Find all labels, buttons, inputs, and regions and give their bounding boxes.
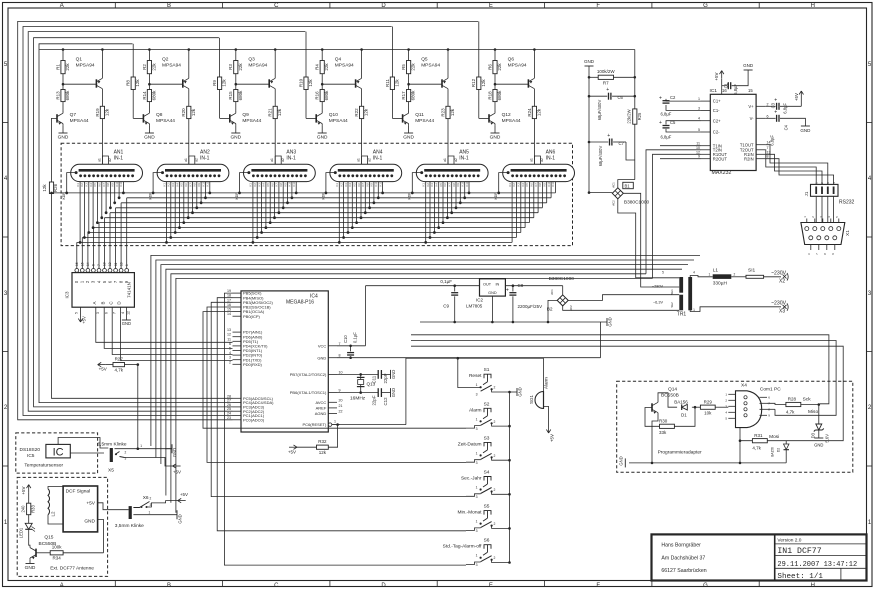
svg-text:C7: C7 — [619, 141, 625, 146]
svg-text:Hans Borngräber: Hans Borngräber — [661, 543, 701, 549]
svg-text:G: G — [703, 3, 708, 9]
svg-text:GND: GND — [230, 135, 241, 141]
svg-text:17: 17 — [227, 298, 231, 302]
svg-text:AREF: AREF — [316, 406, 327, 411]
svg-text:16MHz: 16MHz — [350, 396, 366, 402]
resistor R20 12k — [187, 106, 191, 118]
svg-text:R21: R21 — [268, 108, 273, 117]
svg-text:R2: R2 — [142, 64, 147, 70]
svg-text:+5V: +5V — [99, 367, 107, 372]
svg-text:5: 5 — [698, 128, 700, 132]
resistor R17 680k — [407, 90, 411, 102]
svg-text:12k: 12k — [536, 108, 541, 116]
svg-text:IN-1: IN-1 — [114, 156, 124, 162]
svg-text:C10: C10 — [343, 335, 348, 343]
inductor L2 — [48, 489, 50, 515]
wire tube 2 cathode drops — [149, 173, 212, 244]
svg-text:R13: R13 — [55, 91, 60, 100]
svg-text:R23: R23 — [440, 108, 445, 117]
svg-text:Q8: Q8 — [156, 112, 163, 118]
wire switch common — [509, 392, 511, 563]
svg-text:GND: GND — [178, 514, 183, 523]
svg-text:4,7k: 4,7k — [752, 446, 761, 451]
resistor R10 12k — [304, 77, 308, 90]
svg-text:R22: R22 — [354, 108, 359, 117]
svg-text:S5: S5 — [484, 504, 490, 510]
resistor R6 22k — [493, 61, 497, 74]
svg-text:IC5: IC5 — [27, 453, 35, 459]
svg-text:K5: K5 — [180, 183, 184, 187]
svg-text:X2: X2 — [779, 279, 785, 285]
svg-text:Miso: Miso — [808, 409, 818, 415]
svg-text:LM7805: LM7805 — [466, 304, 483, 309]
title block — [652, 534, 867, 580]
svg-text:PD0(RXD): PD0(RXD) — [243, 362, 263, 367]
svg-text:15: 15 — [81, 262, 85, 266]
svg-text:AC1: AC1 — [612, 182, 616, 188]
svg-text:R25: R25 — [637, 112, 642, 120]
ground cell 6 — [494, 125, 496, 133]
wire tube 4 cathode drops — [321, 173, 384, 244]
svg-text:IN1 DCF77: IN1 DCF77 — [777, 547, 821, 556]
svg-text:4: 4 — [121, 312, 125, 314]
resistor R13 680k — [61, 90, 65, 102]
capacitor C2 6,8uF — [663, 100, 670, 102]
ground C4 — [801, 125, 810, 127]
svg-text:a1: a1 — [184, 158, 188, 162]
capacitor C4 6,8uF — [776, 115, 778, 122]
nixie tube AN6 IN-1 — [503, 150, 575, 182]
IC5 DS18S20 temperature sensor — [16, 433, 98, 473]
nixie tube AN1 IN-1 — [71, 150, 143, 182]
svg-text:K2: K2 — [339, 183, 343, 187]
svg-text:K9: K9 — [456, 183, 460, 187]
DCF receiver module — [63, 486, 98, 532]
+5V right of X5 — [173, 465, 181, 467]
svg-text:KDP: KDP — [321, 192, 325, 200]
svg-text:5: 5 — [229, 347, 231, 351]
svg-text:5: 5 — [75, 312, 79, 314]
svg-text:GND: GND — [488, 291, 497, 295]
wire tube 5 cathode drops — [408, 173, 471, 244]
capacitor C3 6,8uF — [776, 103, 778, 110]
bridge rectifier B1 B380C1000 — [612, 188, 623, 199]
svg-text:R8: R8 — [126, 80, 131, 86]
svg-text:F: F — [596, 3, 600, 9]
resistor R26 — [49, 182, 53, 194]
svg-text:IN-1: IN-1 — [200, 156, 210, 162]
svg-text:22pF: 22pF — [372, 395, 377, 405]
svg-text:8: 8 — [767, 155, 769, 159]
wire B1 to TR1 — [589, 192, 612, 194]
svg-text:KDP: KDP — [149, 192, 153, 200]
programming adapter dashed box — [617, 381, 853, 472]
resistor R30 33k — [660, 424, 675, 428]
svg-text:+: + — [607, 133, 610, 139]
svg-text:+: + — [774, 97, 777, 103]
svg-text:R3: R3 — [228, 64, 233, 70]
svg-text:GND: GND — [317, 135, 328, 141]
wire alarm net — [458, 357, 544, 359]
svg-text:1: 1 — [334, 420, 336, 424]
svg-text:2: 2 — [494, 488, 496, 492]
svg-text:66127 Saarbrücken: 66127 Saarbrücken — [661, 568, 706, 574]
svg-text:R14: R14 — [142, 91, 147, 100]
transistor Q12 MPSA44 — [488, 114, 490, 122]
svg-text:Q11: Q11 — [415, 112, 424, 118]
svg-text:C2-: C2- — [713, 130, 720, 135]
svg-text:+: + — [659, 120, 662, 126]
svg-text:K2: K2 — [426, 183, 430, 187]
svg-text:18: 18 — [227, 294, 231, 298]
capacitor C11 22pF — [377, 370, 379, 379]
svg-text:~6,3V: ~6,3V — [653, 301, 663, 305]
svg-text:3: 3 — [476, 393, 478, 397]
svg-text:9: 9 — [698, 155, 700, 159]
svg-text:1: 1 — [476, 383, 478, 387]
crystal Q13 16MHz — [357, 376, 365, 378]
svg-text:+: + — [606, 87, 609, 93]
svg-text:Com1 PC: Com1 PC — [760, 386, 781, 392]
svg-text:Q7: Q7 — [70, 112, 77, 118]
svg-text:22k: 22k — [411, 63, 416, 71]
svg-text:PB7(XTAL2/TOSC2): PB7(XTAL2/TOSC2) — [290, 372, 327, 377]
svg-text:IN-1: IN-1 — [459, 156, 469, 162]
svg-text:R2IN: R2IN — [744, 156, 754, 161]
svg-text:+: + — [659, 95, 662, 101]
svg-text:14: 14 — [86, 262, 90, 266]
svg-text:3: 3 — [476, 495, 478, 499]
transistor Q7 MPSA44 — [56, 114, 58, 122]
svg-text:2: 2 — [734, 273, 736, 277]
wire MAX232 to J1 — [765, 145, 828, 185]
switch S1 Reset — [458, 367, 511, 397]
wire B2 connections — [548, 300, 557, 322]
svg-text:SG1: SG1 — [529, 394, 534, 404]
svg-text:MPSA44: MPSA44 — [70, 118, 89, 124]
resistor R25 22k/2W — [633, 109, 637, 124]
DCF antenna dashed box — [17, 477, 107, 576]
svg-text:R19: R19 — [95, 108, 100, 117]
transistor Q5 MPSA94 — [441, 79, 443, 87]
svg-text:S4: S4 — [484, 470, 490, 476]
svg-text:K11: K11 — [551, 181, 555, 186]
wire driver cell 6 — [479, 21, 536, 164]
svg-text:VCC: VCC — [318, 343, 327, 348]
svg-text:0,1µF: 0,1µF — [440, 279, 452, 284]
svg-text:GND: GND — [584, 59, 595, 64]
svg-text:Q2: Q2 — [162, 57, 169, 63]
bridge rectifier B2 B380C1000 — [557, 295, 568, 306]
wire R27 — [98, 364, 106, 366]
svg-text:X5: X5 — [108, 468, 114, 474]
capacitor C1 6,8uF — [727, 82, 729, 89]
IC1 MAX232 — [710, 94, 756, 170]
wire VCC/GND of IC4 — [337, 286, 601, 359]
svg-text:D1: D1 — [681, 413, 687, 418]
svg-text:MPSA94: MPSA94 — [421, 63, 440, 69]
wire anode-select net cell4 — [28, 32, 305, 412]
transistor Q10 MPSA44 — [315, 114, 317, 122]
svg-text:Q5: Q5 — [421, 57, 428, 63]
svg-text:4: 4 — [698, 117, 700, 121]
svg-text:+5V: +5V — [21, 487, 26, 495]
svg-text:6,8µF: 6,8µF — [783, 103, 788, 114]
svg-text:19: 19 — [227, 289, 231, 293]
svg-text:16: 16 — [75, 262, 79, 266]
svg-text:3: 3 — [96, 312, 100, 314]
svg-text:G: G — [703, 583, 708, 589]
svg-text:12: 12 — [696, 150, 700, 154]
svg-text:D2: D2 — [777, 448, 781, 452]
connector X1 DB9 — [801, 223, 845, 245]
svg-text:Std.-Tag-Alarm-off: Std.-Tag-Alarm-off — [443, 544, 482, 550]
svg-text:A: A — [60, 583, 64, 589]
svg-text:C1: C1 — [724, 82, 729, 88]
svg-text:C3: C3 — [771, 102, 776, 108]
svg-text:7: 7 — [339, 342, 341, 346]
svg-text:R18: R18 — [487, 91, 492, 100]
svg-text:BA156: BA156 — [674, 399, 688, 404]
svg-text:Sec.-Jahr: Sec.-Jahr — [461, 476, 482, 482]
svg-text:V-: V- — [750, 116, 755, 121]
svg-text:74141N: 74141N — [127, 282, 132, 298]
wire driver cell 5 — [392, 27, 449, 165]
svg-text:1: 1 — [698, 97, 700, 101]
svg-text:2: 2 — [767, 102, 769, 106]
svg-text:S3: S3 — [484, 435, 490, 441]
svg-text:2: 2 — [229, 360, 231, 364]
capacitor C6 68uF/400V — [608, 93, 610, 100]
wire tube 6 cathode drops — [494, 173, 555, 243]
wire C2 — [666, 99, 701, 101]
svg-text:12k: 12k — [277, 108, 282, 116]
svg-text:12: 12 — [127, 311, 131, 315]
ground HV filter — [585, 65, 594, 67]
svg-text:10: 10 — [339, 370, 343, 374]
svg-text:IN-1: IN-1 — [373, 156, 383, 162]
svg-text:KDP: KDP — [235, 192, 239, 200]
svg-text:+: + — [506, 287, 509, 293]
+5V at C1 — [721, 71, 723, 79]
svg-text:AC2: AC2 — [569, 305, 573, 311]
svg-text:R30: R30 — [659, 419, 668, 424]
ground power rail — [606, 318, 608, 326]
svg-text:K9: K9 — [197, 183, 201, 187]
svg-text:S6: S6 — [484, 538, 490, 544]
svg-text:5: 5 — [662, 271, 664, 275]
svg-text:X1: X1 — [845, 230, 851, 236]
svg-text:R7: R7 — [603, 81, 609, 86]
svg-text:PC6(RESET): PC6(RESET) — [303, 422, 327, 427]
svg-text:Min.-Monat: Min.-Monat — [458, 510, 483, 516]
svg-text:B: B — [167, 3, 171, 9]
wire anode-select net cell5 — [23, 27, 392, 416]
svg-text:a2: a2 — [108, 158, 112, 162]
svg-text:Q6: Q6 — [508, 57, 515, 63]
wire Q14 — [645, 408, 660, 427]
svg-text:IC2: IC2 — [476, 298, 484, 303]
svg-text:0,1µF: 0,1µF — [353, 332, 358, 343]
svg-text:12k: 12k — [135, 79, 140, 87]
wire tube 3 cathode drops — [235, 173, 298, 244]
resistor R31 4,7k — [752, 439, 767, 443]
svg-text:MPSA44: MPSA44 — [502, 118, 521, 124]
svg-text:+5V: +5V — [794, 93, 799, 101]
wire driver cell 3 — [220, 38, 277, 165]
svg-text:6: 6 — [92, 264, 96, 266]
wire X6 — [133, 514, 177, 516]
transistor Q9 MPSA44 — [229, 114, 231, 122]
svg-text:PB6(XTAL1/TOSC1): PB6(XTAL1/TOSC1) — [290, 390, 327, 395]
svg-text:AGND: AGND — [315, 411, 327, 416]
svg-text:IN-1: IN-1 — [286, 156, 296, 162]
svg-text:GND: GND — [58, 135, 69, 141]
resistor R15 680k — [234, 90, 238, 102]
wire driver cell 2 — [133, 44, 190, 165]
svg-text:R5: R5 — [401, 64, 406, 70]
svg-text:Mosi: Mosi — [769, 434, 779, 440]
ground D3 — [814, 437, 823, 439]
svg-text:12k: 12k — [222, 79, 227, 87]
svg-text:C: C — [274, 3, 279, 9]
svg-text:12k: 12k — [394, 79, 399, 87]
svg-text:4,7k: 4,7k — [114, 368, 123, 373]
svg-text:+: + — [774, 109, 777, 115]
svg-text:H: H — [811, 583, 815, 589]
svg-text:a1: a1 — [357, 158, 361, 162]
svg-text:MPSA94: MPSA94 — [162, 63, 181, 69]
svg-text:14: 14 — [227, 312, 231, 316]
svg-text:Q14: Q14 — [668, 387, 677, 393]
switch S4 Sec.-Jahr — [461, 470, 511, 500]
resistor R33 240 — [27, 503, 31, 515]
svg-text:7: 7 — [767, 146, 769, 150]
svg-text:C2+: C2+ — [713, 118, 721, 123]
svg-text:R33: R33 — [31, 504, 36, 512]
op-amp U1 IC3 74141N nixie driver — [72, 273, 134, 308]
resistor R34 100k — [50, 551, 63, 555]
svg-text:C4: C4 — [784, 124, 789, 130]
capacitor C9 0,1uF — [451, 292, 458, 294]
transistor Q4 MPSA94 — [355, 79, 357, 87]
+5V at SG1 — [548, 425, 550, 433]
svg-text:GND: GND — [608, 317, 613, 326]
svg-text:GND: GND — [317, 355, 326, 360]
svg-text:11: 11 — [114, 262, 118, 266]
capacitor C7 68uF/400V — [609, 139, 611, 146]
svg-text:4: 4 — [229, 351, 231, 355]
ground C11 — [390, 370, 392, 379]
svg-text:K9: K9 — [543, 183, 547, 187]
svg-text:A: A — [60, 3, 64, 9]
svg-text:R1: R1 — [55, 64, 60, 70]
svg-text:GND: GND — [172, 448, 177, 457]
svg-text:X6: X6 — [143, 495, 149, 501]
svg-text:MAX232: MAX232 — [712, 170, 732, 176]
svg-text:Alarm: Alarm — [469, 407, 482, 413]
svg-text:~230V: ~230V — [771, 301, 787, 307]
svg-text:MEGA8-P16: MEGA8-P16 — [286, 300, 314, 306]
svg-text:IC1: IC1 — [710, 88, 718, 94]
svg-text:OUT: OUT — [483, 282, 492, 286]
ground Q15 — [29, 560, 31, 564]
svg-text:+5V: +5V — [82, 316, 87, 324]
svg-text:GND: GND — [25, 565, 36, 571]
svg-text:K2: K2 — [253, 183, 257, 187]
svg-text:+5V: +5V — [288, 450, 296, 455]
resistor R8 12k — [131, 77, 135, 90]
svg-text:MPSA94: MPSA94 — [248, 63, 267, 69]
svg-text:240: 240 — [21, 505, 26, 513]
svg-text:3: 3 — [150, 503, 152, 507]
svg-text:K11: K11 — [206, 181, 210, 186]
wire J1 to X1 — [815, 196, 817, 222]
svg-text:C1+: C1+ — [713, 99, 721, 104]
svg-text:X3: X3 — [779, 309, 785, 315]
transistor Q14 BC550B — [651, 403, 653, 411]
svg-text:3: 3 — [698, 106, 700, 110]
svg-text:12k: 12k — [104, 108, 109, 116]
wire TR1 primary — [690, 276, 713, 278]
svg-text:GND: GND — [391, 388, 396, 397]
svg-text:+5V: +5V — [550, 434, 555, 442]
svg-text:2: 2 — [494, 420, 496, 424]
svg-text:6,8µF: 6,8µF — [770, 135, 775, 146]
ground X5 — [171, 444, 173, 453]
svg-text:C11: C11 — [372, 375, 377, 383]
wire SPI/UART bus loops — [151, 255, 700, 446]
svg-text:1: 1 — [476, 451, 478, 455]
svg-text:22k: 22k — [65, 63, 70, 71]
svg-text:R29: R29 — [704, 399, 713, 404]
svg-text:100k: 100k — [52, 545, 63, 550]
svg-text:1: 1 — [476, 417, 478, 421]
svg-text:12k: 12k — [481, 79, 486, 87]
svg-text:a1: a1 — [443, 158, 447, 162]
svg-text:GND: GND — [391, 370, 396, 379]
svg-text:12: 12 — [227, 333, 231, 337]
svg-text:R20: R20 — [181, 108, 186, 117]
resistor R7 100k/2W — [598, 75, 613, 79]
svg-text:K2: K2 — [167, 183, 171, 187]
svg-text:R11: R11 — [385, 79, 390, 87]
svg-text:12k: 12k — [364, 108, 369, 116]
resistor R4 22k — [320, 61, 324, 74]
switch S3 Zeit-Datum — [458, 435, 511, 465]
voltage regulator IC2 LM7805 — [480, 279, 506, 296]
svg-text:X4: X4 — [741, 383, 747, 389]
svg-text:GND: GND — [403, 135, 414, 141]
svg-text:MPSA94: MPSA94 — [335, 63, 354, 69]
svg-text:12k: 12k — [319, 450, 327, 455]
svg-text:C: C — [274, 583, 279, 589]
svg-text:22pF: 22pF — [383, 373, 388, 383]
wire DS18S20 to X5 — [58, 438, 108, 449]
svg-text:K6: K6 — [98, 183, 102, 187]
svg-text:GND: GND — [518, 387, 523, 396]
transistor Q1 MPSA94 — [95, 79, 97, 87]
svg-text:2200µF/25V: 2200µF/25V — [518, 304, 543, 309]
svg-text:B: B — [100, 301, 105, 304]
resistor R21 12k — [273, 106, 277, 118]
svg-text:SE2: SE2 — [670, 302, 674, 308]
supply pins IC3 — [80, 307, 82, 315]
wire bus to 74141 — [76, 242, 78, 268]
svg-text:3: 3 — [476, 427, 478, 431]
resistor R16 680k — [320, 90, 324, 102]
svg-text:680k: 680k — [238, 90, 243, 101]
